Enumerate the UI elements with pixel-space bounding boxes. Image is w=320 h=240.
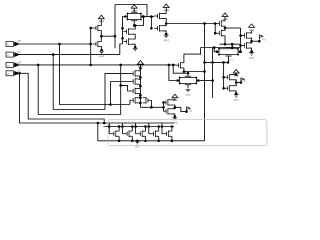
wire M_m gate drop [150,100,152,107]
wire y62.4 feed [205,61,229,63]
wire INV3 gate bus [223,62,225,88]
wire INV2 out right [166,23,215,25]
wire vertical x115 [114,5,116,49]
wire INV1 out to x115 [101,35,115,37]
transmission gate TG2 [217,47,240,56]
wire TG_b top gate stub [187,73,189,76]
wire row top rail y126.5 [104,126,175,128]
wire N1-N2 link [132,34,136,39]
wire B4 source drop [158,136,160,141]
wire a0 drop to TG_b left [169,65,178,81]
transistor P5 top-right [216,30,224,37]
wire bus x240.6 [240,28,242,52]
transistor N6 cout nmos [242,42,250,49]
wire to s flag [236,82,241,84]
wire chain link b [138,75,140,77]
wire N3 to gnd [163,31,167,34]
wire net a0 riser x120.7 [120,65,122,115]
svg-text:s: s [244,79,246,83]
wire net b1 riser to xor1 nstack [120,44,123,55]
wire vdd to M1 [100,19,102,26]
power vdd chain [137,61,143,65]
wire B5 source drop [171,136,173,141]
svg-text:b: b [7,53,9,57]
wire B4 drain riser [158,127,160,132]
wire net a0 horizontal [15,64,177,66]
wire long vertical x204.5 [204,24,206,141]
wire rail to TG2 left [214,48,217,52]
transistor N1 xor1 [124,28,132,35]
wire B3 gate riser [135,123,137,134]
wire INV1 gate tap [91,27,93,29]
wire B5 drain riser [171,127,173,132]
wire vdd stub cout [250,31,252,33]
wire B1 drain riser [118,127,120,132]
wire vdd chain stub [139,64,141,68]
wire net b0 riser to chain gate4 [130,100,131,104]
wire rail y47.5 [201,47,240,49]
wire to TG_b top gate [173,65,188,73]
wire vdd to P3 [163,7,167,13]
power vdd INV5 [172,94,178,98]
wire chain link h [138,102,140,104]
power vdd P4 [222,13,228,17]
ground INV1 [99,51,104,54]
transistor bottom-row B1 [109,130,119,137]
power vdd TG1 [131,5,137,9]
transistor M_m mirror [143,97,152,104]
wire INV5 out to flag [175,107,186,111]
wire B1 gate riser [108,123,110,134]
transistor N8 INV5 nmos [164,108,172,115]
svg-text:gnd: gnd [135,144,140,148]
svg-text:a: a [7,72,9,76]
wire T_a drain to rail [184,48,201,64]
wire TG_b bottom gate stub [187,85,189,89]
wire TG2 bottom gate stub [228,56,230,63]
wire TG2 top gate stub [228,46,230,48]
ground TG_b [186,89,191,92]
svg-text:gnd: gnd [172,120,177,124]
wire vdd stub INV3 [233,73,236,75]
wire INV1 node [100,31,102,42]
wire chain link f [138,93,140,95]
wire net b0 horizontal [15,43,91,45]
power vdd INV2 [163,4,169,8]
transistor M2 nmos INV1 [93,41,102,48]
transistor chain T4 [131,97,138,104]
wire N1 drain to TG1 right [132,17,144,30]
wire B2 source drop [131,136,133,141]
wire chain link c [138,78,140,80]
wire TG2 right stub [239,51,242,53]
wire vertical x212.6 [212,48,214,99]
transistor bottom-row B2 [122,130,132,137]
wire net a1 drop to bus y119 [28,73,104,123]
wire INV3 gnd stub [233,91,236,94]
output port s [240,81,243,84]
wire net a0 tap to chain gate3 [121,85,132,91]
wire P5 source to line y44.2 [224,36,226,44]
output port s1 [185,110,188,113]
wire B1 source drop [118,136,120,141]
svg-text:b: b [7,42,9,46]
wire INV3 node [233,80,236,86]
power vdd cout [249,24,255,28]
input port IN1 b0 [6,42,13,47]
wire INV2 gate bus [150,17,152,29]
transistor chain T3 [131,88,138,95]
svg-text:gnd: gnd [229,59,234,62]
ground XOR1 [133,48,138,51]
power vdd INV3 [233,70,239,74]
svg-text:a: a [7,63,9,67]
svg-text:b0: b0 [18,39,22,43]
wire net b1 riser to chain gate1 [105,73,131,109]
svg-text:gnd: gnd [164,38,169,42]
wire chain link d [138,84,140,86]
ground INV2 [164,35,169,38]
wire net b1 drop to bus y109.5 [53,55,105,110]
wire B5 gate riser [161,123,163,134]
transistor bottom-row B3 [136,130,146,137]
wire bottom rail y140.8 [98,140,205,142]
wire cout node [250,38,252,43]
wire chain spine x140.4 [139,68,141,107]
svg-text:s₁: s₁ [189,109,192,113]
wire net b0 drop to bus y104.5 [60,44,130,105]
transistor bottom-row B5 [162,130,172,137]
wire INV5 gnd stub [171,114,175,117]
wire line y44.2 over TG2 [220,43,241,45]
wire net a1 long bus y123 [20,73,175,123]
transistor M1 pmos INV1 [93,25,102,32]
wire link y44.2 to rail [231,44,233,47]
ground bottom row [136,140,139,143]
wire net a1 horizontal [15,72,29,74]
wire net a0 drop to bus y114.5 [38,65,121,115]
transistor P8 INV5 pmos [164,99,172,106]
wire B3 source drop [145,136,147,141]
wire vdd stub P4 [224,16,226,21]
transistor N7 INV3 nmos [225,85,233,92]
wire TG1 bottom gate stub [133,21,135,26]
wire T_a source to x204.5 [184,68,205,72]
wire drop x97.8 to bottom rail [97,123,99,141]
svg-text:b1: b1 [18,50,22,54]
wire B2 gate riser [121,123,123,134]
wire TG_b right to x212.6 [198,80,212,82]
wire net b1 horizontal [15,54,120,56]
transistor chain T1 [131,70,138,77]
wire B3 drain riser [145,127,147,132]
wire vdd stub INV5 [171,98,175,100]
svg-text:gnd: gnd [249,56,254,60]
wire N6 to gnd [250,48,252,51]
wire chain link e [138,87,140,89]
wire net b0 riser to chain gate2 [111,82,132,105]
transistor N3 nmos INV2 [154,25,163,32]
wire gate bus x215.2 [214,24,216,34]
wire TG1 right to INV2 [144,16,152,18]
power vdd INV1 [98,15,104,19]
transistor T_a [177,62,184,69]
wire TG1 left to nstack bus [123,17,126,45]
ground INV5 [172,117,177,120]
wire top loop to TG1 right [115,5,147,17]
wire INV2 node [163,19,167,26]
transistor N2 xor1 [124,38,132,45]
wire gate bus x90.7 [90,28,92,65]
ground bottom row sym [135,141,140,144]
wire vdd stub TG1 [133,8,135,12]
transmission gate TG1 [126,12,143,21]
transistor P3 pmos INV2 [154,13,163,20]
wire B4 gate riser [148,123,150,134]
wire INV2 pgate tap [151,16,154,18]
input port IN3 a0 [6,62,13,67]
transistor bottom-row B4 [149,130,159,137]
wire INV5 gate bus [163,102,165,111]
selection box bottom [108,120,267,146]
wire N2 source to gnd [132,44,136,47]
output port cout [258,40,261,43]
transistor P4 top-right [216,20,224,27]
input port IN4 a1 [6,71,13,76]
wire chain link a [138,70,140,72]
svg-text:a0: a0 [18,60,22,64]
wire B2 drain riser [131,127,133,132]
svg-text:c₀: c₀ [262,37,266,41]
wire M2 source to gnd [100,47,102,50]
input port IN2 b1 [6,52,13,57]
svg-text:gnd: gnd [186,92,191,96]
transistor chain T2 [131,78,138,85]
ground cout [249,53,254,56]
transistor P7 INV3 pmos [225,74,233,81]
wire P4-P5 node [224,26,226,31]
ground INV3 [234,95,239,98]
transmission gate TG_b [178,76,199,85]
wire cout to flag [252,40,260,42]
svg-text:gnd: gnd [234,98,239,102]
transistor P6 cout pmos [242,32,250,39]
wire node y28 right [225,27,241,29]
wire chain link g [138,97,140,99]
wire INV5 node [171,105,175,109]
wire chain out to INV5 [140,106,163,108]
svg-text:gnd: gnd [99,54,104,58]
